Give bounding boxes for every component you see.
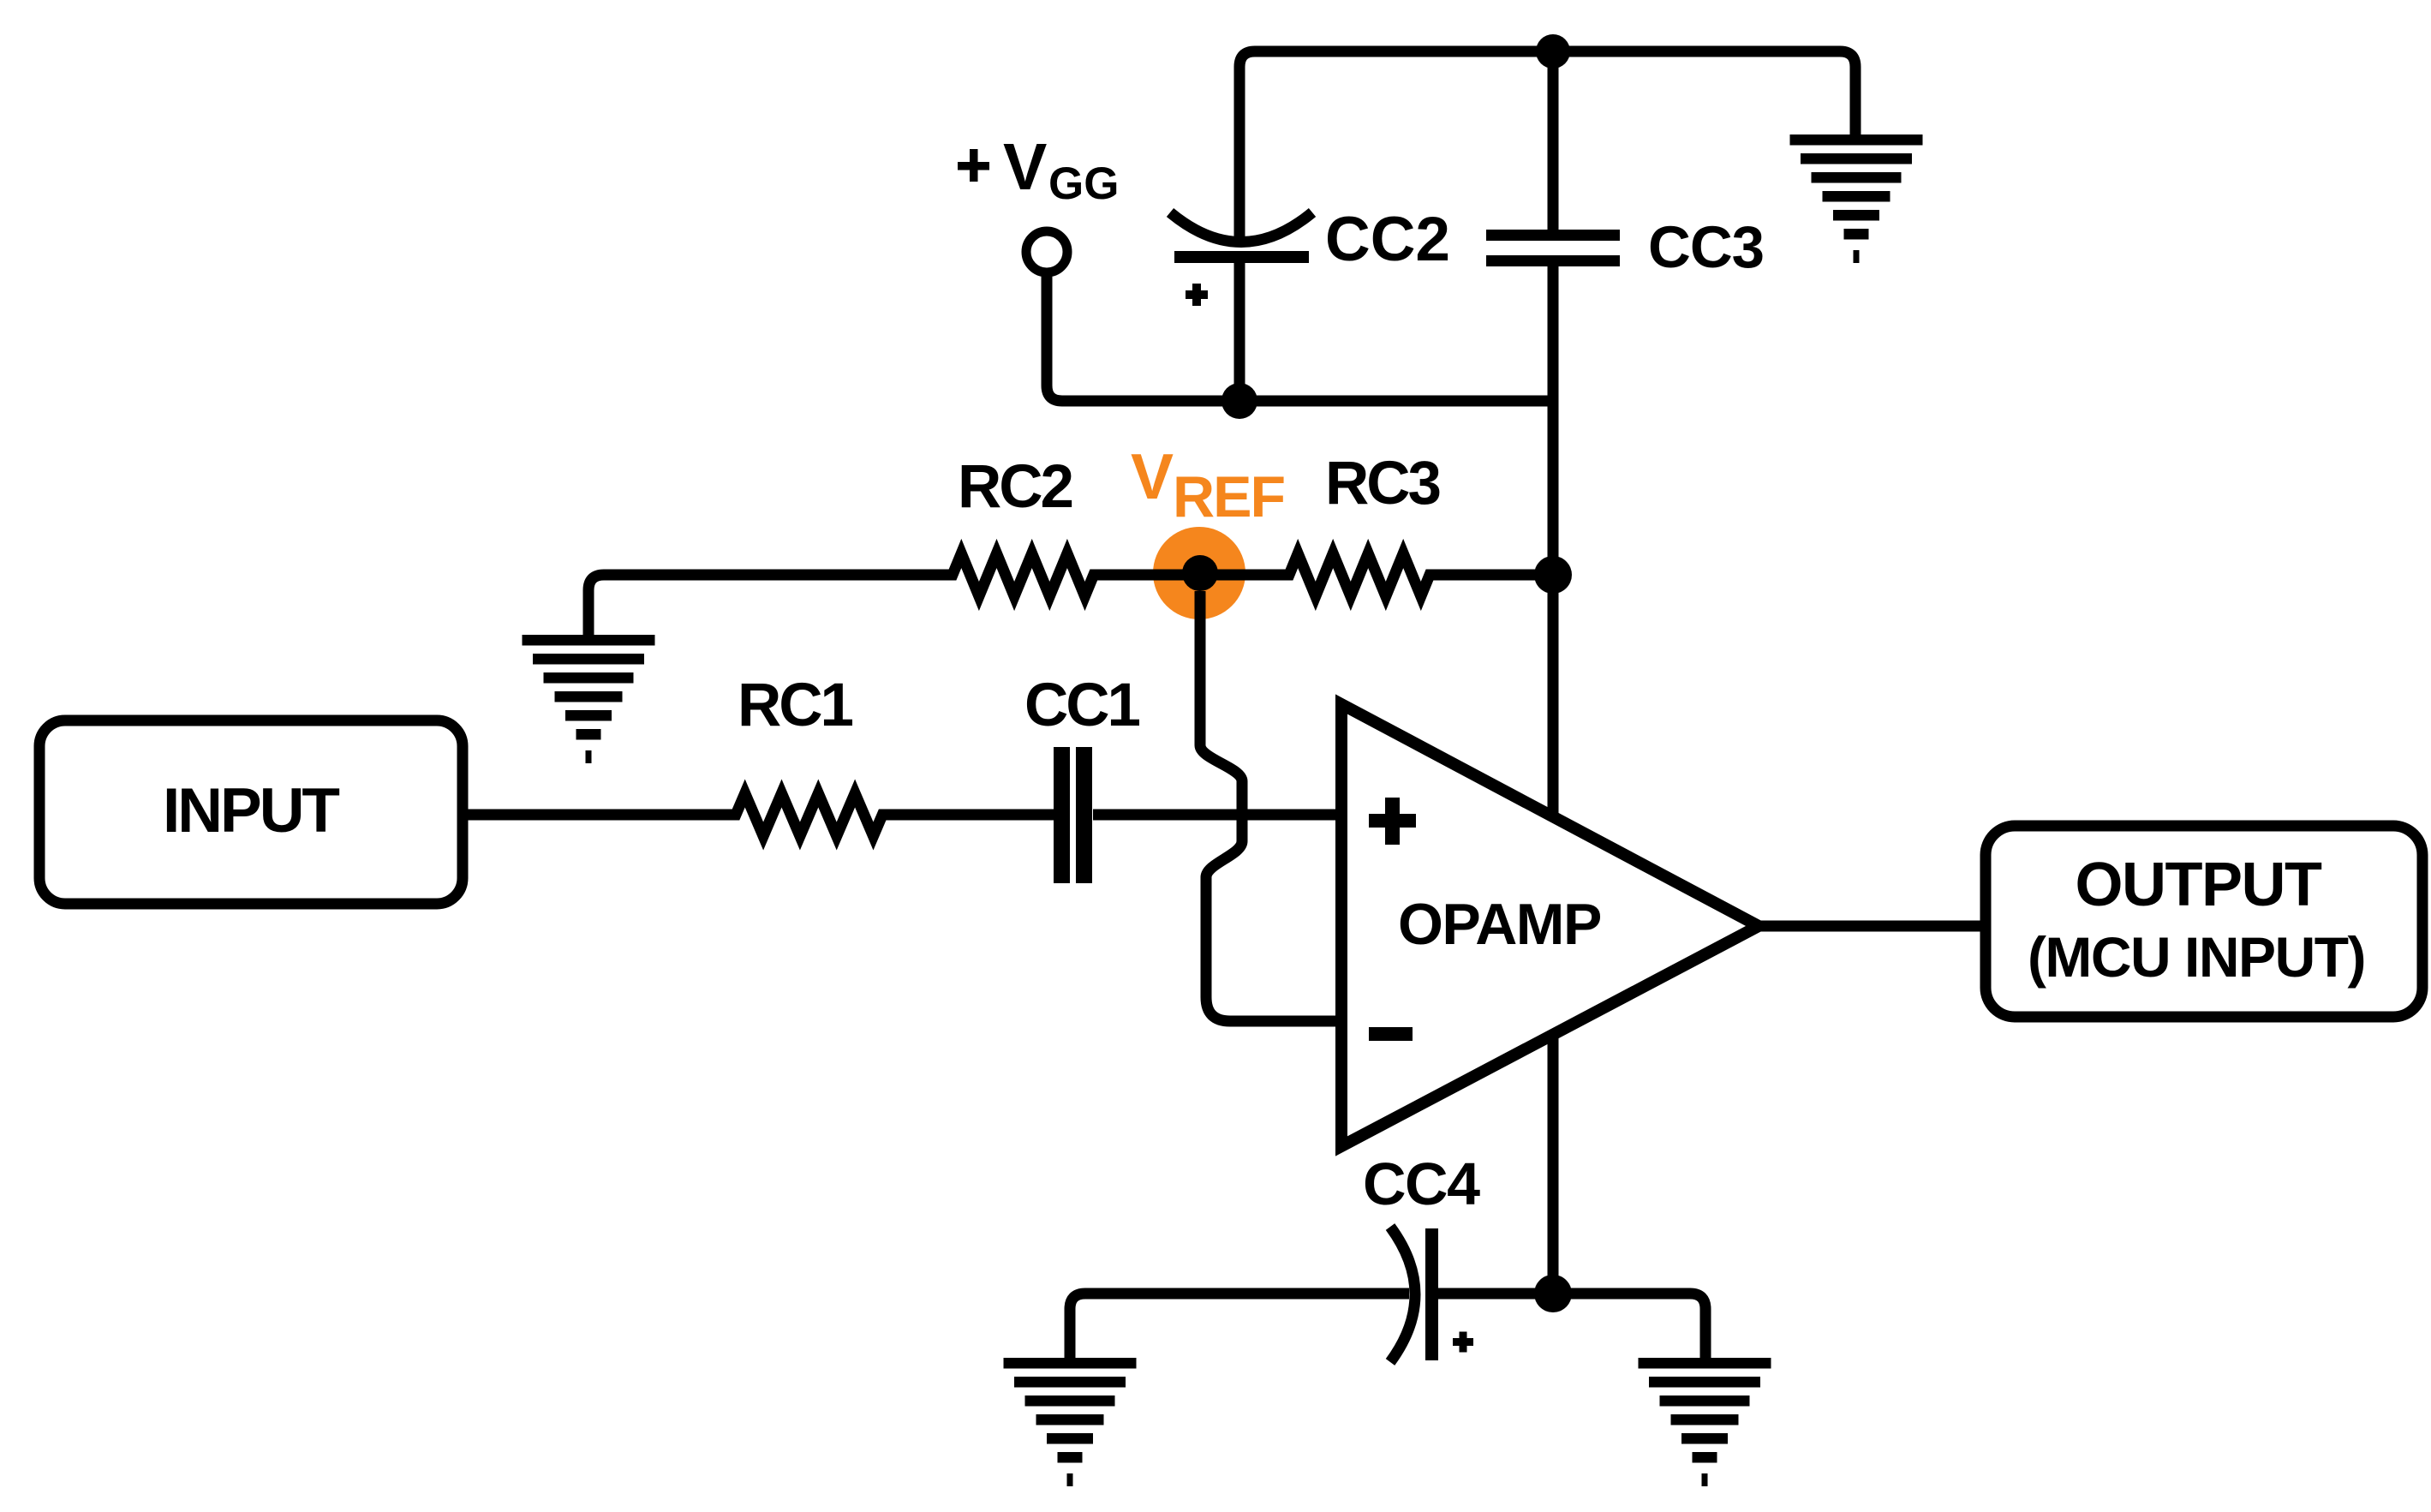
svg-text:REF: REF [1173, 464, 1284, 529]
svg-text:CC1: CC1 [1024, 672, 1140, 739]
svg-text:GG: GG [1048, 158, 1119, 209]
svg-text:CC4: CC4 [1363, 1150, 1480, 1217]
svg-text:RC3: RC3 [1325, 450, 1440, 517]
svg-text:(MCU INPUT): (MCU INPUT) [2028, 925, 2365, 989]
svg-text:V: V [1131, 440, 1174, 512]
svg-text:INPUT: INPUT [163, 776, 339, 846]
svg-text:OUTPUT: OUTPUT [2076, 851, 2323, 919]
svg-text:CC3: CC3 [1648, 214, 1764, 280]
svg-text:CC2: CC2 [1325, 205, 1450, 274]
svg-text:V: V [1003, 130, 1047, 204]
svg-text:OPAMP: OPAMP [1398, 892, 1601, 957]
svg-text:RC2: RC2 [958, 453, 1072, 521]
svg-text:RC1: RC1 [738, 672, 853, 739]
